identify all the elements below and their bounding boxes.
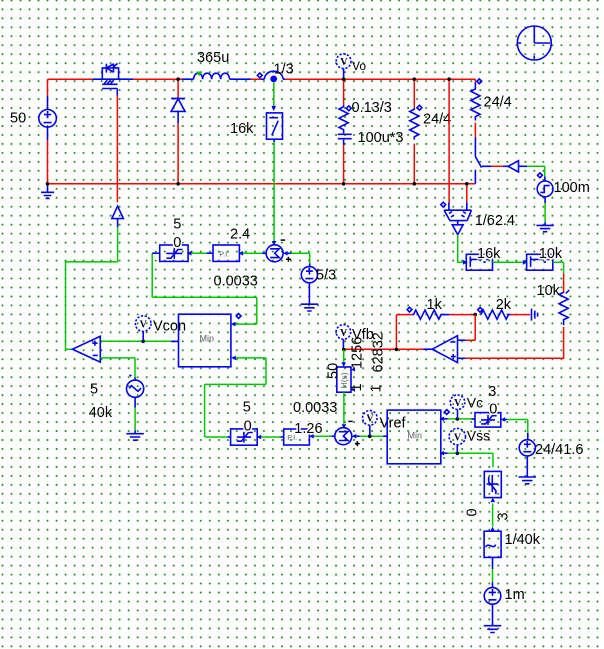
svg-text:1/62.4: 1/62.4	[475, 213, 515, 229]
svg-text:16k: 16k	[477, 246, 501, 262]
svg-text:0.0033: 0.0033	[293, 400, 337, 416]
svg-text:62832: 62832	[371, 332, 387, 372]
svg-text:1: 1	[369, 384, 385, 392]
svg-text:3: 3	[488, 384, 496, 400]
svg-text:0.13/3: 0.13/3	[352, 100, 392, 116]
svg-text:10k: 10k	[539, 246, 563, 262]
svg-text:Min: Min	[200, 334, 215, 344]
svg-text:3: 3	[496, 512, 512, 520]
svg-text:16k: 16k	[230, 121, 254, 137]
svg-text:2k: 2k	[496, 297, 512, 313]
svg-text:50: 50	[326, 363, 342, 379]
svg-text:50: 50	[10, 111, 26, 127]
svg-text:1256: 1256	[350, 337, 366, 369]
svg-text:0: 0	[465, 508, 481, 516]
svg-text:1/3: 1/3	[274, 62, 294, 78]
svg-text:1m: 1m	[505, 587, 525, 603]
svg-text:1/40k: 1/40k	[505, 532, 541, 548]
svg-text:24/4: 24/4	[484, 95, 512, 111]
svg-text:V: V	[340, 57, 348, 68]
svg-text:Vc: Vc	[467, 395, 483, 411]
svg-text:365u: 365u	[197, 50, 229, 66]
svg-text:Vcon: Vcon	[153, 319, 186, 335]
svg-text:5: 5	[243, 399, 251, 415]
svg-text:P.I.: P.I.	[219, 249, 229, 258]
svg-text:Min: Min	[408, 431, 423, 441]
svg-text:V: V	[454, 433, 462, 444]
svg-text:V: V	[454, 398, 462, 409]
svg-text:5: 5	[90, 381, 98, 397]
svg-text:0: 0	[489, 402, 497, 418]
svg-text:V: V	[140, 320, 148, 331]
svg-text:100u*3: 100u*3	[358, 130, 404, 146]
svg-text:2.4: 2.4	[230, 226, 250, 242]
svg-text:40k: 40k	[89, 405, 113, 421]
svg-text:Vo: Vo	[352, 59, 366, 73]
svg-text:V: V	[340, 328, 348, 339]
svg-text:Vss: Vss	[467, 427, 490, 443]
svg-text:24/4: 24/4	[423, 112, 451, 128]
svg-text:0: 0	[244, 419, 252, 435]
svg-text:5: 5	[173, 216, 181, 232]
svg-text:1: 1	[349, 383, 365, 391]
svg-text:0: 0	[173, 235, 181, 251]
svg-text:1.26: 1.26	[294, 421, 322, 437]
svg-text:10k: 10k	[537, 283, 561, 299]
svg-text:1k: 1k	[427, 297, 443, 313]
svg-text:24/41.6: 24/41.6	[535, 442, 583, 458]
svg-text:100m: 100m	[554, 180, 590, 196]
svg-text:V: V	[366, 414, 374, 425]
svg-text:Vref: Vref	[380, 415, 407, 431]
svg-text:0.0033: 0.0033	[214, 274, 258, 290]
svg-text:5/3: 5/3	[316, 268, 336, 284]
